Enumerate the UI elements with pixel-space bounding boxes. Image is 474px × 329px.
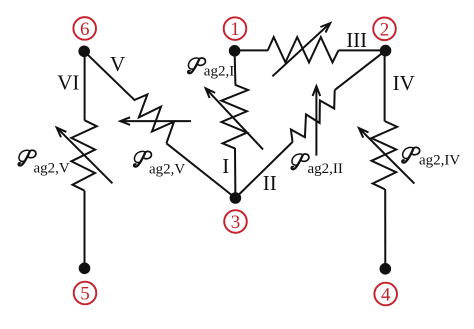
resistor P_ag2,I (vertical, variable) [221,85,248,149]
resistor P_ag2,V (diagonal, variable) [134,95,174,144]
node 3 junction dot [230,192,242,204]
node 5 label circle [74,282,97,305]
svg-text:5: 5 [80,284,90,305]
svg-text:VI: VI [57,71,79,95]
resistor P_ag2,VI (left vertical, variable) [71,120,97,190]
label P_ag2,V (middle resistor value) [134,151,185,177]
node 6 label circle [73,17,96,40]
wire V: node 6 to resistor P_ag2,V [84,51,135,100]
node 1 label circle [224,17,247,40]
svg-text:II: II [263,171,277,195]
wire II: node 3 to resistor P_ag2,II [235,142,292,198]
wire: resistor P_ag2,VI bottom stub to node 5 [84,191,86,269]
resistor P_ag2,II (diagonal, variable) [291,90,335,142]
node 5 terminal dot [79,263,91,275]
svg-text:V: V [110,52,125,76]
node 2 label circle [373,18,396,41]
node 4 label circle [374,283,397,306]
svg-text:2: 2 [380,19,390,40]
svg-text:1: 1 [230,19,240,40]
svg-text:ag2,V: ag2,V [34,160,70,176]
wire: resistor P_ag2,IV to node 4 [384,189,386,269]
node 1 junction dot [229,45,241,57]
wire IV: node 2 to resistor P_ag2,IV [384,51,386,122]
resistor P_ag2,III (horizontal, variable) [268,37,339,62]
node 4 terminal dot [380,263,392,275]
node 6 junction dot [78,46,90,58]
wire: resistor P_ag2,I to node 3 [234,148,236,198]
svg-text:4: 4 [381,285,391,306]
label P_ag2,V (left resistor value) [19,150,70,176]
svg-text:6: 6 [80,19,90,40]
svg-text:ag2,V: ag2,V [149,162,185,178]
label P_ag2,II (resistor value) [292,154,343,177]
svg-text:3: 3 [231,212,241,233]
svg-text:ag2,II: ag2,II [308,161,343,177]
wire: resistor P_ag2,V to node 3 [166,143,235,198]
svg-text:IV: IV [393,71,415,95]
svg-text:I: I [222,154,229,178]
svg-text:ag2,I: ag2,I [204,63,234,79]
label P_ag2,I (resistor value) [188,58,234,79]
node 2 junction dot [380,45,392,57]
label P_ag2,IV (resistor value) [402,147,460,168]
wire: resistor P_ag2,II to node 2 [335,51,386,91]
resistor P_ag2,IV (right vertical, variable) [372,121,398,189]
wire I: node 1 to resistor P_ag2,I [234,51,237,85]
svg-text:III: III [346,28,367,52]
svg-text:ag2,IV: ag2,IV [419,153,460,169]
wire: resistor P_ag2,III to node 2 [338,49,385,51]
node 3 label circle [224,210,247,233]
wire VI: node 6 to resistor top stub [84,51,86,120]
wire III: node 1 to resistor [235,49,268,51]
